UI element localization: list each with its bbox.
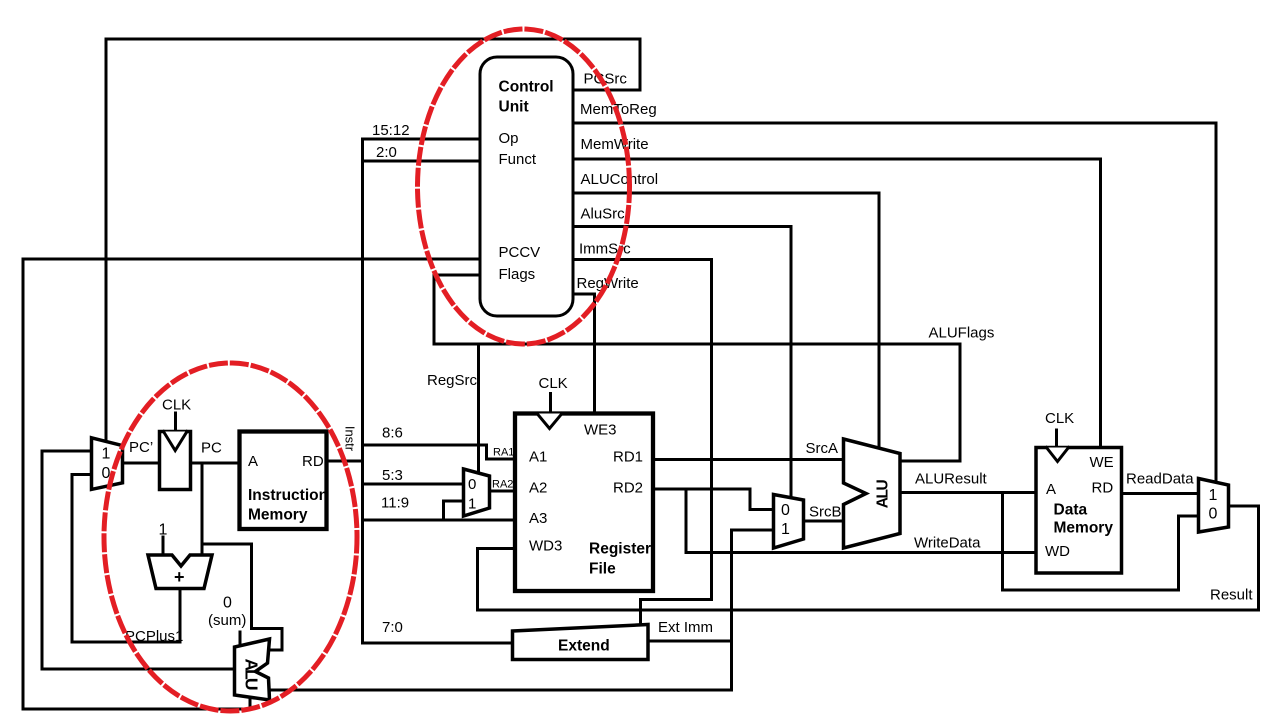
svg-text:Instr: Instr (343, 426, 358, 452)
svg-text:Ext Imm: Ext Imm (658, 619, 713, 636)
RA2 mux (464, 469, 490, 516)
wire PCPlus1 to PC mux input 0 (72, 475, 180, 643)
svg-text:0: 0 (223, 595, 232, 612)
svg-text:Extend: Extend (558, 638, 610, 655)
svg-text:RD1: RD1 (613, 449, 643, 466)
svg-text:Instruction: Instruction (248, 487, 328, 504)
wire CLK stem register file (549, 394, 552, 414)
svg-text:CLK: CLK (162, 397, 191, 414)
wire 5:3 to RA2 mux 0 (363, 483, 464, 486)
wire SrcB mux to ALU (804, 520, 844, 523)
wire Instr bus vertical (361, 139, 364, 643)
svg-text:A: A (248, 453, 258, 470)
main ALU (844, 439, 901, 548)
control unit U1 (480, 57, 573, 316)
wire PC tap down to adder (201, 463, 204, 555)
svg-text:A3: A3 (529, 510, 547, 527)
wire RegSrc to RA2 mux select (477, 344, 480, 474)
svg-text:WD: WD (1045, 543, 1070, 560)
svg-text:1: 1 (468, 496, 476, 513)
svg-text:0: 0 (781, 502, 790, 519)
wire MemWrite to data memory WE (573, 159, 1101, 448)
wire sum 0 stub (239, 632, 242, 646)
wire Flags input from ALUFlags (434, 275, 960, 461)
svg-text:5:3: 5:3 (382, 467, 403, 484)
svg-text:Funct: Funct (499, 151, 537, 168)
wire Result bus (478, 506, 1259, 610)
svg-text:0: 0 (1209, 506, 1218, 523)
wire CLK stem PC (174, 413, 177, 432)
svg-text:RA2: RA2 (492, 479, 513, 491)
svg-text:Memory: Memory (248, 507, 308, 524)
wire WriteData to data memory WD (686, 489, 1036, 553)
svg-text:SrcA: SrcA (806, 440, 839, 457)
svg-text:CLK: CLK (1045, 410, 1074, 427)
wire RA2 mux to A2 (490, 490, 516, 493)
svg-text:A2: A2 (529, 480, 547, 497)
svg-text:RD: RD (302, 453, 324, 470)
svg-text:PC’: PC’ (129, 439, 153, 456)
wire MemToReg to result mux select (573, 123, 1216, 484)
svg-text:A: A (1046, 481, 1056, 498)
red dashed ellipse around PC logic (104, 363, 357, 711)
svg-text:ALU: ALU (242, 659, 262, 690)
wire Funct input 2:0 (363, 160, 481, 163)
PC register (160, 432, 191, 490)
wire Ext Imm to branch ALU lower input (270, 689, 732, 692)
svg-text:WD3: WD3 (529, 538, 562, 555)
svg-text:Register: Register (589, 541, 651, 558)
svg-text:1: 1 (102, 446, 111, 463)
register file (515, 414, 653, 592)
svg-text:A1: A1 (529, 449, 547, 466)
red dashed ellipse around control unit (418, 29, 630, 344)
wire 11:9 to A3 (363, 519, 516, 522)
wire RD1 SrcA to ALU (653, 458, 844, 461)
wire RD2 to SrcB mux input 0 (653, 489, 774, 510)
PCPlus1 adder (148, 555, 212, 589)
wire ALUResult to data memory A (900, 491, 1036, 494)
svg-text:RD2: RD2 (613, 480, 643, 497)
svg-text:Unit: Unit (499, 99, 529, 116)
svg-text:1: 1 (1209, 487, 1218, 504)
svg-text:RegSrc: RegSrc (427, 372, 478, 389)
wire CLK stem data memory (1055, 430, 1058, 448)
wire PC to instruction memory A (191, 462, 240, 465)
branch ALU (235, 639, 270, 700)
svg-text:PCPlus1: PCPlus1 (125, 628, 183, 645)
svg-text:PC: PC (201, 440, 222, 457)
svg-text:RA1: RA1 (493, 447, 514, 459)
wire ALUControl to ALU (573, 193, 879, 450)
svg-text:2:0: 2:0 (376, 144, 397, 161)
svg-text:MemWrite: MemWrite (581, 136, 649, 153)
svg-text:WE: WE (1090, 454, 1114, 471)
wire 7:0 to Extend (363, 642, 513, 645)
SrcB mux (774, 495, 804, 549)
wire ALUResult tap to result mux input 0 (1003, 493, 1199, 591)
data memory (1036, 448, 1122, 574)
svg-text:Result: Result (1210, 587, 1253, 604)
svg-text:ReadData: ReadData (1126, 471, 1194, 488)
wire Result to WD3 (478, 549, 516, 611)
wire RegWrite to register file WE3 (573, 294, 595, 414)
PC mux (92, 438, 123, 490)
svg-text:ALUControl: ALUControl (581, 171, 659, 188)
result mux (1199, 479, 1229, 533)
wire PCCV input loop (23, 259, 480, 709)
svg-text:Control: Control (499, 78, 554, 95)
svg-text:SrcB: SrcB (809, 504, 842, 521)
wire ImmSrc to Extend (573, 260, 712, 626)
svg-text:Memory: Memory (1054, 520, 1114, 537)
wire PC' mux to PC register (123, 462, 160, 465)
wire 8:6 to RA1 (363, 445, 516, 459)
svg-text:WriteData: WriteData (914, 535, 981, 552)
wire Op input 15:12 (363, 138, 481, 141)
wire branch target to PC mux input 1 (42, 451, 234, 669)
svg-text:0: 0 (468, 476, 476, 493)
svg-text:8:6: 8:6 (382, 425, 403, 442)
wire AluSrc to SrcB mux select (573, 227, 791, 500)
svg-text:CLK: CLK (539, 375, 568, 392)
wire instruction memory RD to Instr bus (326, 460, 363, 463)
svg-text:1: 1 (159, 522, 168, 539)
extend unit (513, 625, 649, 660)
svg-text:Flags: Flags (499, 266, 536, 283)
svg-text:ALUResult: ALUResult (915, 471, 988, 488)
svg-text:15:12: 15:12 (372, 122, 410, 139)
svg-text:PCCV: PCCV (499, 244, 541, 261)
svg-text:AluSrc: AluSrc (581, 206, 626, 223)
wire Ext Imm (648, 640, 732, 643)
svg-text:(sum): (sum) (208, 612, 246, 629)
svg-text:File: File (589, 561, 616, 578)
wire PC branch to branch ALU upper input (202, 544, 282, 650)
wire ReadData to result mux input 1 (1122, 492, 1199, 495)
svg-text:1: 1 (781, 521, 790, 538)
svg-text:ALU: ALU (875, 480, 892, 509)
instruction memory (240, 432, 327, 530)
svg-text:Op: Op (499, 130, 519, 147)
wire Ext Imm to SrcB mux input 1 (732, 529, 774, 532)
svg-text:RD: RD (1092, 480, 1114, 497)
wire adder constant 1 stem (162, 537, 165, 555)
wire 11:9 tap to RA2 mux 1 (444, 501, 464, 520)
svg-text:11:9: 11:9 (381, 495, 409, 512)
wire Ext Imm vertical (730, 530, 733, 690)
svg-text:7:0: 7:0 (382, 619, 403, 636)
svg-text:Data: Data (1054, 502, 1088, 519)
wire branch ALU flags stub (249, 698, 252, 710)
svg-text:WE3: WE3 (584, 422, 617, 439)
wire PCSrc loop to PC mux select (106, 39, 640, 442)
svg-text:ALUFlags: ALUFlags (929, 325, 995, 342)
svg-text:+: + (174, 567, 185, 587)
